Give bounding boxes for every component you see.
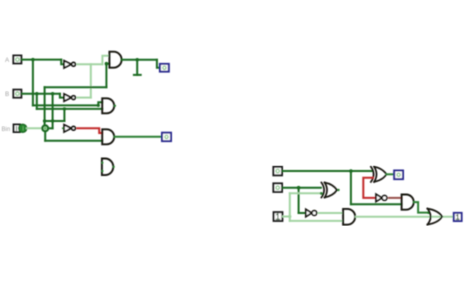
wire AND3 output [115,136,162,138]
node XOR2 lower input dot [320,192,323,195]
wire AND1 bottom feed vertical [105,64,107,87]
AND gate U7 (unconnected) [102,159,113,176]
svg-text:Bin: Bin [2,127,11,133]
output pin S4 (value 1) [454,213,462,221]
wire inverter3 output error (red) [77,128,102,133]
wire inverter1 output (high) [77,63,102,65]
wire B vertical x52.6 [52,94,54,129]
input pin Y [273,183,282,192]
wire X horizontal [282,170,372,172]
wire Bin output (high) [27,127,42,129]
wire Z vertical (high) [289,193,291,221]
node XOR2 output dot [337,189,339,191]
inverter U2 [64,94,75,101]
input pin B [13,90,21,98]
wire AND1 output [122,59,157,61]
wire AND2 top feed step [98,102,102,105]
wire vertical x44.6 [44,87,46,125]
node AND1 bottom junction [105,62,109,66]
input pin Bin [14,124,27,132]
node Z junction [288,215,291,218]
wire AND U13 output elbow [414,202,429,213]
wire Z to XOR2 lower input (high) [290,192,321,194]
inverter U4 (unconnected input) [64,125,75,132]
AND gate U3 (AND1) [109,52,121,68]
input pin A [13,56,21,64]
wire inverter U8 output (high) [319,212,343,214]
wire stub tick [134,74,141,76]
input pin X [273,167,282,176]
wire B horizontal [22,93,60,95]
node U7 input dot a [101,162,103,164]
wire inverter2 output (high) [77,97,90,99]
OR gate U14 [427,209,442,225]
node AND1 output junction [136,58,139,61]
node AND2 step junction [97,104,100,107]
node ring junction [42,125,48,131]
wire A vertical [32,60,34,106]
node B junction 1 [35,92,38,95]
wire B vertical x36.8 [36,94,38,109]
node X junction [349,169,353,173]
wire AND1 bottom input stub [106,63,109,65]
node Y junction [297,186,301,190]
wire AND2 bottom feed horizontal [37,108,102,110]
wire ring junction right [49,127,53,129]
node B junction 2 [51,92,54,95]
output pin S2 [162,133,171,141]
inverter U1 [64,61,75,68]
node AND2 output dot [114,105,116,107]
wire pale vertical to inverter2 output [90,64,92,97]
AND gate U13 [402,195,414,210]
wire X to AND-a bottom input [351,203,402,205]
wire inverter U12 output error (dark red) [389,197,402,199]
wire AND3 bottom feed [45,140,102,142]
wire AND2 top feed horizontal [33,104,98,106]
wire Y vertical [298,188,300,213]
wire into output pin S1 [157,60,160,68]
wire pale step into AND1 top input [102,56,109,65]
node U7 output dot [113,166,115,168]
wire stub vertical from AND1 output [136,60,138,75]
AND gate U10 (AND-D) [343,209,355,225]
node OR input wire end [427,211,430,214]
wire A horizontal [22,59,62,61]
wire X vertical [350,171,352,204]
node junction y121 a [43,119,46,122]
inverter U12 [376,194,387,201]
wire Y to inverter U8 input [299,212,306,214]
output pin S1 [160,64,169,72]
wire horizontal y121 [45,120,65,122]
wire Z to AND-D lower input (high) [290,220,343,222]
wire red XOR1 lower input [363,178,376,198]
svg-text:B: B [5,91,9,98]
wire inverter2 input step [60,94,64,98]
input pin Z (value 1) [274,212,283,221]
wire ring junction down [44,132,46,141]
wire horizontal y87.2 [45,86,107,88]
wire XOR1 output [387,173,395,175]
XOR gate U11 [371,167,387,182]
node A junction [31,58,34,61]
node inverter3 input dot [62,127,64,129]
wire vertical x64.4 [63,109,65,121]
node junction y121 b [51,119,54,122]
node U7 input dot b [101,170,103,172]
wire Y horizontal [282,187,321,189]
inverter U8 [306,209,317,216]
wire AND-D output long (high) [356,216,454,218]
XOR gate U9 [321,183,337,198]
AND gate U5 (AND3) [102,129,114,144]
node junction x64.4 [63,107,66,110]
wire inverter1 input step [61,60,64,65]
AND gate U6 (AND2) [102,98,114,113]
wire Z horizontal (high) [283,216,290,218]
output pin S3 [394,171,403,180]
